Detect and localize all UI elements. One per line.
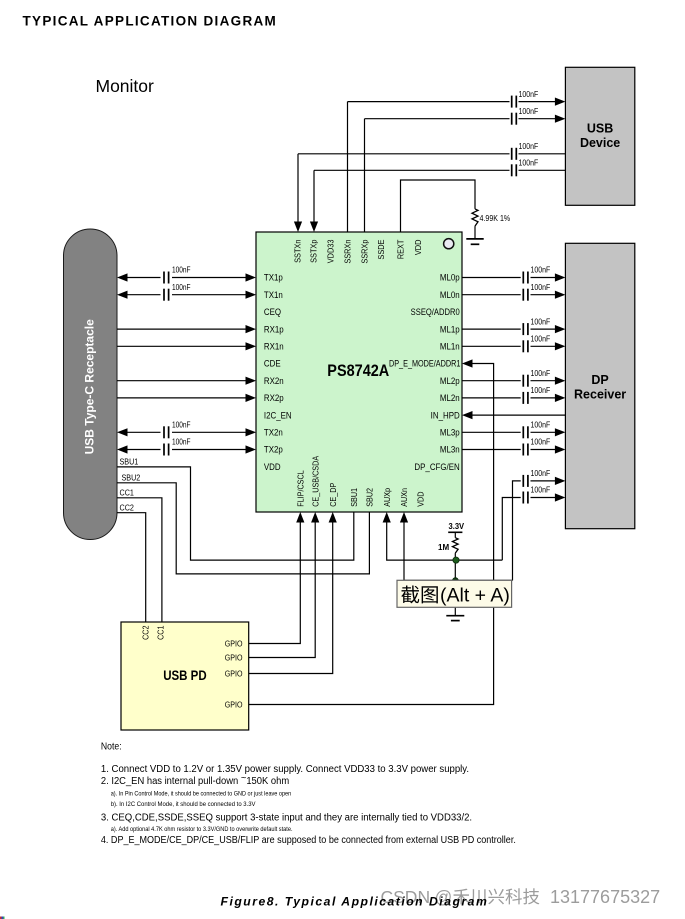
svg-text:VDD33: VDD33 [326, 239, 336, 263]
svg-text:REXT: REXT [396, 239, 406, 259]
svg-text:CC1: CC1 [120, 488, 134, 497]
svg-text:1. Connect VDD to 1.2V or 1.35: 1. Connect VDD to 1.2V or 1.35V power su… [101, 764, 469, 775]
svg-text:GPIO: GPIO [225, 669, 243, 679]
svg-text:CC1: CC1 [156, 626, 165, 640]
svg-text:SBU2: SBU2 [365, 488, 375, 507]
svg-text:ML2n: ML2n [440, 393, 460, 404]
svg-text:100nF: 100nF [531, 317, 551, 327]
svg-text:GPIO: GPIO [225, 700, 243, 710]
svg-text:RX1n: RX1n [264, 341, 284, 352]
svg-text:PS8742A: PS8742A [327, 362, 389, 380]
svg-text:Receiver: Receiver [574, 388, 626, 402]
svg-text:DP: DP [591, 373, 608, 387]
svg-text:100nF: 100nF [531, 334, 551, 344]
svg-text:AUXn: AUXn [400, 488, 410, 507]
svg-text:100nF: 100nF [519, 89, 539, 99]
svg-text:VDD: VDD [264, 461, 281, 472]
svg-text:SSRXp: SSRXp [360, 239, 370, 264]
svg-text:ML1p: ML1p [440, 324, 460, 335]
svg-text:USB PD: USB PD [163, 667, 206, 683]
svg-text:100nF: 100nF [519, 106, 539, 116]
svg-text:IN_HPD: IN_HPD [431, 410, 460, 421]
svg-text:b). In I2C Control Mode, it sh: b). In I2C Control Mode, it should be co… [111, 800, 256, 807]
svg-text:2. I2C_EN has internal pull-do: 2. I2C_EN has internal pull-down ~150K o… [101, 772, 289, 787]
svg-text:1M: 1M [438, 543, 449, 552]
svg-text:ML0n: ML0n [440, 289, 460, 300]
svg-text:TYPICAL APPLICATION DIAGRAM: TYPICAL APPLICATION DIAGRAM [23, 14, 278, 29]
svg-text:100nF: 100nF [531, 437, 551, 447]
svg-text:CE_DP: CE_DP [328, 483, 338, 507]
svg-text:CDE: CDE [264, 358, 281, 369]
svg-text:CC2: CC2 [120, 503, 134, 512]
svg-text:GPIO: GPIO [225, 653, 243, 663]
svg-text:ML0p: ML0p [440, 272, 460, 283]
svg-text:100nF: 100nF [519, 158, 539, 168]
svg-text:SSDE: SSDE [377, 240, 387, 260]
svg-text:100nF: 100nF [172, 265, 191, 275]
svg-text:SBU1: SBU1 [349, 488, 359, 507]
svg-text:CEQ: CEQ [264, 307, 282, 318]
svg-text:100nF: 100nF [172, 420, 191, 430]
svg-text:RX2n: RX2n [264, 375, 284, 386]
svg-text:100nF: 100nF [531, 420, 551, 430]
svg-text:TX1p: TX1p [264, 272, 283, 283]
svg-text:Note:: Note: [101, 741, 122, 753]
svg-text:TX1n: TX1n [264, 289, 283, 300]
svg-text:VDD: VDD [416, 491, 426, 507]
svg-text:USB Type-C Receptacle: USB Type-C Receptacle [83, 319, 97, 454]
svg-text:FLIP/CSCL: FLIP/CSCL [296, 470, 306, 507]
svg-text:a). In Pin Control Mode, it sh: a). In Pin Control Mode, it should be co… [111, 790, 292, 798]
svg-text:a). Add optional 4.7K ohm resi: a). Add optional 4.7K ohm resistor to 3.… [111, 825, 293, 833]
svg-text:SSEQ/ADDR0: SSEQ/ADDR0 [411, 308, 460, 318]
svg-text:VDD: VDD [414, 239, 424, 255]
svg-text:DP_CFG/EN: DP_CFG/EN [414, 461, 459, 472]
svg-text:RX1p: RX1p [264, 324, 284, 335]
svg-text:RX2p: RX2p [264, 393, 284, 404]
svg-text:4.99K 1%: 4.99K 1% [480, 214, 511, 224]
svg-text:4. DP_E_MODE/CE_DP/CE_USB/FLIP: 4. DP_E_MODE/CE_DP/CE_USB/FLIP are suppo… [101, 834, 516, 846]
svg-text:Monitor: Monitor [96, 76, 155, 96]
svg-text:ML3n: ML3n [440, 444, 460, 455]
svg-text:Figure8. Typical Application D: Figure8. Typical Application Diagram [221, 895, 489, 909]
svg-text:SSTXp: SSTXp [309, 239, 319, 263]
svg-text:Device: Device [580, 136, 620, 150]
svg-text:SSTXn: SSTXn [293, 240, 303, 263]
svg-text:3. CEQ,CDE,SSDE,SSEQ support 3: 3. CEQ,CDE,SSDE,SSEQ support 3-state inp… [101, 812, 472, 823]
svg-text:DP_E_MODE/ADDR1: DP_E_MODE/ADDR1 [389, 359, 461, 369]
svg-text:SBU1: SBU1 [120, 457, 139, 466]
svg-text:CC2: CC2 [141, 626, 150, 640]
svg-text:CE_USB/CSDA: CE_USB/CSDA [311, 455, 321, 507]
svg-text:100nF: 100nF [519, 142, 539, 152]
svg-text:100nF: 100nF [531, 265, 551, 275]
svg-text:SBU2: SBU2 [122, 473, 141, 482]
svg-text:100nF: 100nF [531, 368, 551, 378]
svg-text:100nF: 100nF [531, 282, 551, 292]
svg-text:(Alt + A): (Alt + A) [440, 585, 510, 607]
svg-text:SSRXn: SSRXn [343, 240, 353, 264]
svg-text:TX2p: TX2p [264, 444, 283, 455]
svg-text:100nF: 100nF [172, 437, 191, 447]
svg-text:USB: USB [587, 122, 613, 136]
svg-text:ML3p: ML3p [440, 427, 460, 438]
svg-text:ML2p: ML2p [440, 375, 460, 386]
svg-text:100nF: 100nF [531, 386, 551, 396]
svg-text:I2C_EN: I2C_EN [264, 410, 292, 421]
svg-text:13177675327: 13177675327 [550, 887, 660, 907]
svg-text:100nF: 100nF [172, 282, 191, 292]
svg-text:100nF: 100nF [531, 469, 551, 479]
svg-text:ML1n: ML1n [440, 341, 460, 352]
svg-text:GPIO: GPIO [225, 639, 243, 649]
svg-text:100nF: 100nF [531, 485, 551, 495]
svg-text:TX2n: TX2n [264, 427, 283, 438]
svg-text:3.3V: 3.3V [449, 522, 465, 531]
svg-text:AUXp: AUXp [382, 487, 392, 506]
